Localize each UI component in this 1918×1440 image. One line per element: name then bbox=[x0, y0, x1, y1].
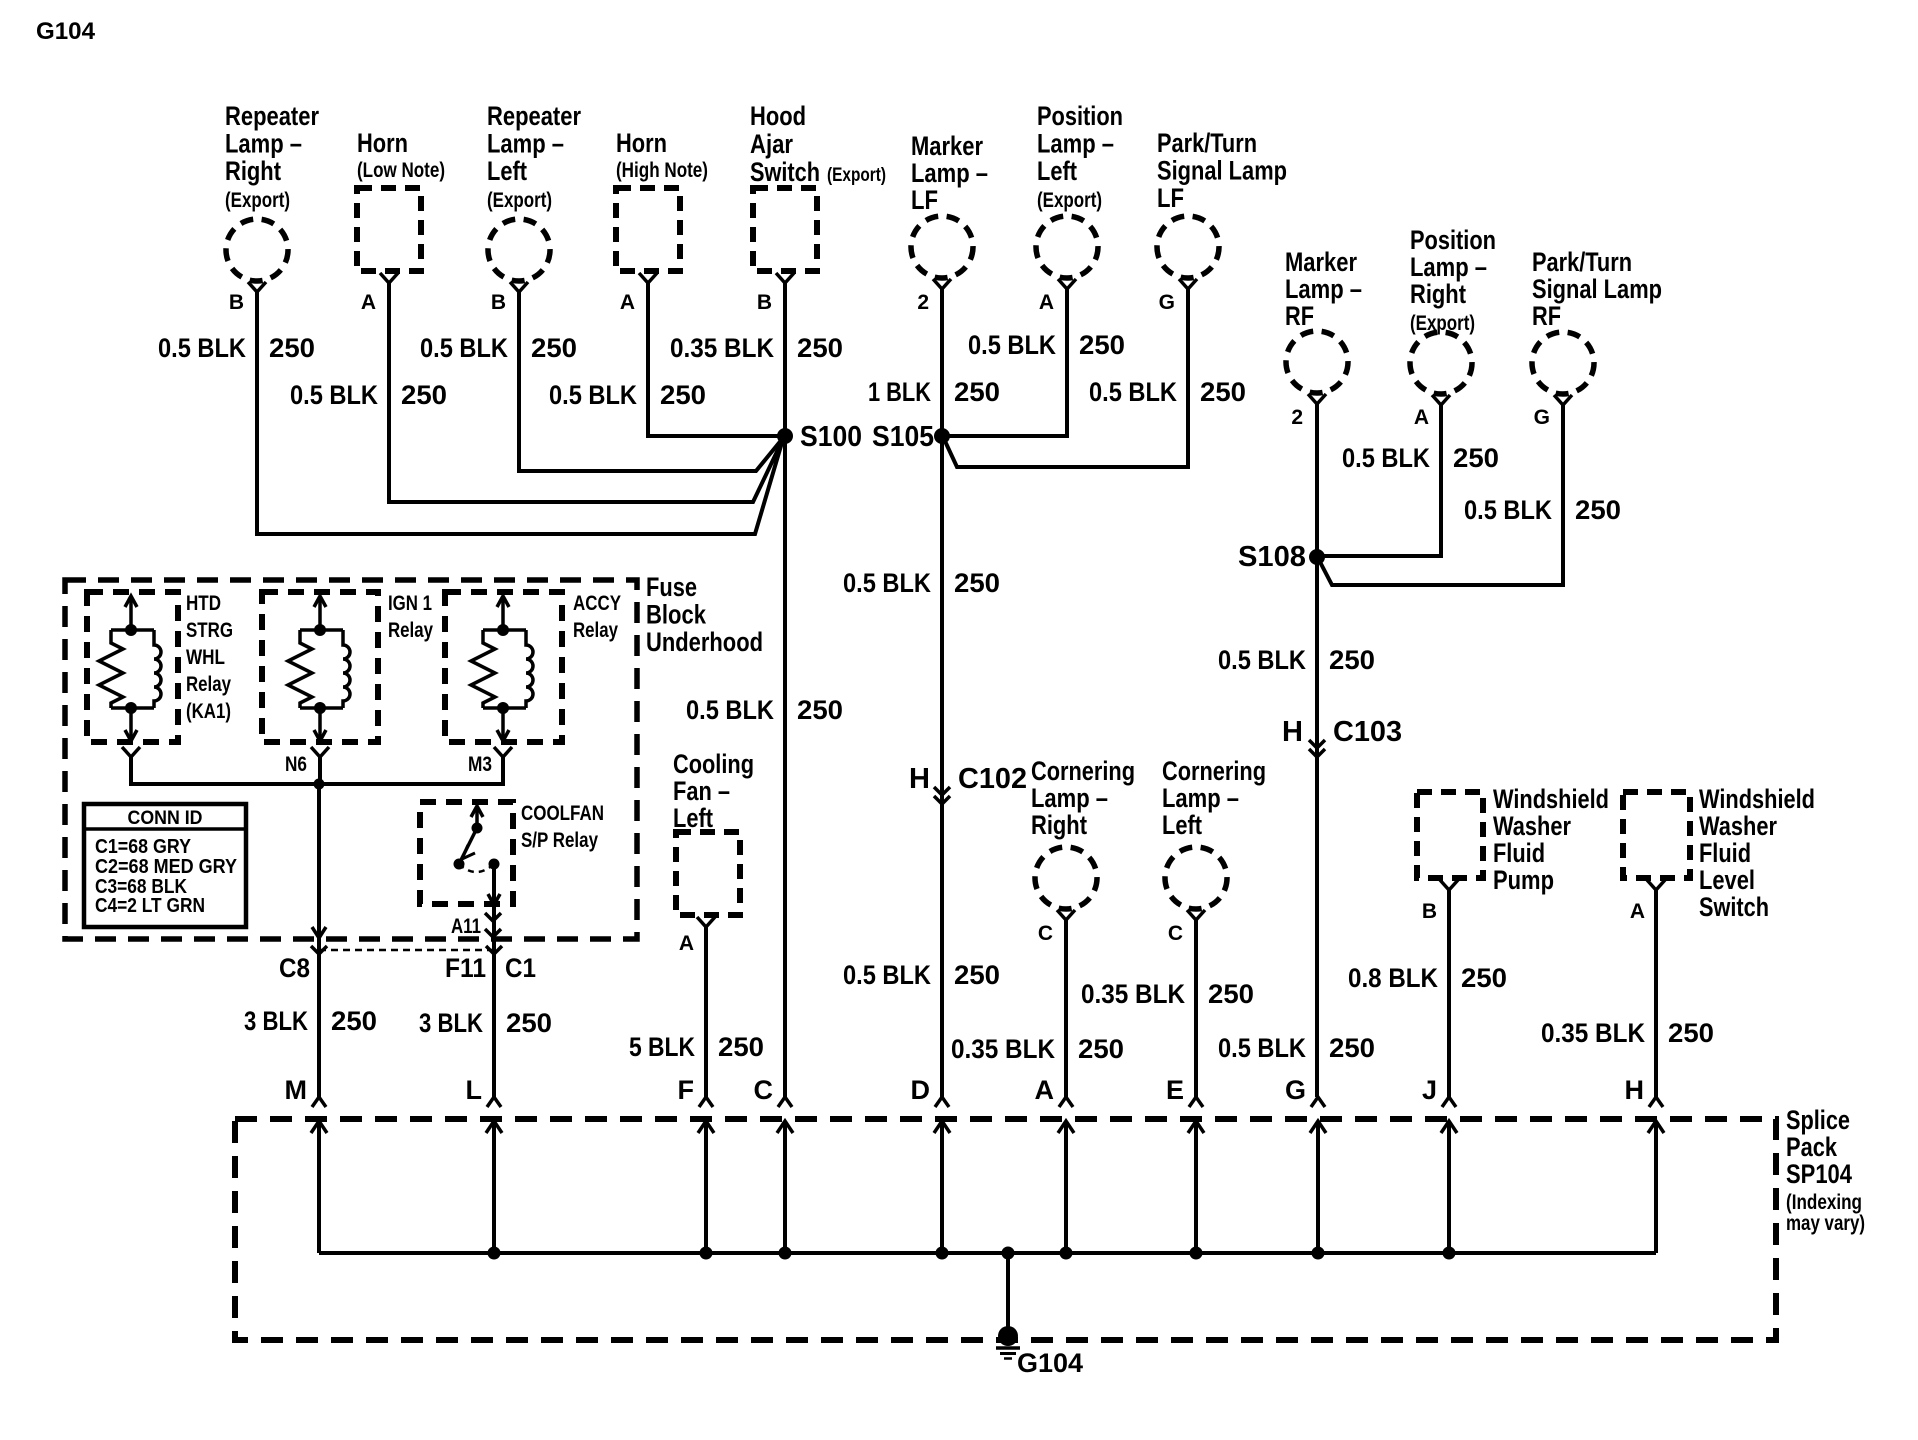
label Splice Pack SP104 bbox=[1786, 1105, 1865, 1235]
svg-text:(Export): (Export) bbox=[487, 189, 552, 212]
svg-text:250: 250 bbox=[506, 1008, 552, 1038]
lamp: Cornering Lamp - Right bbox=[1031, 756, 1135, 909]
splice pack pin J bbox=[1422, 1075, 1457, 1253]
pin C of Cornering Lamp Right bbox=[1038, 910, 1075, 945]
svg-text:250: 250 bbox=[1461, 963, 1507, 993]
svg-text:S/P Relay: S/P Relay bbox=[521, 829, 598, 852]
svg-text:Switch: Switch bbox=[1699, 892, 1769, 922]
svg-text:250: 250 bbox=[718, 1032, 764, 1062]
svg-text:0.5 BLK: 0.5 BLK bbox=[843, 960, 931, 990]
svg-text:Position: Position bbox=[1410, 225, 1496, 255]
svg-text:B: B bbox=[229, 291, 244, 314]
splice pack pin M bbox=[285, 1075, 328, 1253]
lamp: Marker Lamp - RF bbox=[1285, 247, 1362, 393]
svg-text:Signal Lamp: Signal Lamp bbox=[1532, 274, 1662, 304]
svg-text:250: 250 bbox=[1329, 1033, 1375, 1063]
CONN ID table bbox=[84, 804, 246, 927]
pin 2 of Marker Lamp - LF bbox=[917, 279, 951, 314]
svg-text:0.5 BLK: 0.5 BLK bbox=[1089, 377, 1177, 407]
svg-text:Lamp –: Lamp – bbox=[1162, 783, 1239, 813]
svg-text:B: B bbox=[757, 291, 772, 314]
lamp: Repeater Lamp - Left (Export) bbox=[487, 101, 581, 281]
svg-text:250: 250 bbox=[954, 960, 1000, 990]
wire label 0.35 BLK 250 (level switch) bbox=[1541, 1018, 1714, 1048]
svg-text:(KA1): (KA1) bbox=[186, 700, 231, 723]
splice S100 bbox=[777, 421, 862, 453]
svg-text:F: F bbox=[678, 1075, 695, 1105]
wire label 0.5 BLK 250 (S100 to C) bbox=[686, 695, 843, 725]
svg-text:G: G bbox=[1285, 1075, 1306, 1105]
bus junction at ground tap bbox=[1002, 1247, 1015, 1260]
svg-text:Fan –: Fan – bbox=[673, 776, 730, 806]
wire label 0.5 BLK 250 (repeater right) bbox=[158, 333, 315, 363]
pin A of Horn (High Note) bbox=[620, 273, 657, 314]
wire: Cooling Fan A to splice pack pin F bbox=[704, 927, 708, 1097]
svg-text:G104: G104 bbox=[1017, 1348, 1083, 1378]
svg-text:0.35 BLK: 0.35 BLK bbox=[951, 1034, 1055, 1064]
label Fuse Block Underhood bbox=[646, 572, 763, 657]
splice pack pin A bbox=[1035, 1075, 1075, 1253]
svg-text:Underhood: Underhood bbox=[646, 627, 763, 657]
svg-text:Lamp –: Lamp – bbox=[1031, 783, 1108, 813]
wire label 0.5 BLK 250 (C102 to D) bbox=[843, 960, 1000, 990]
splice pack pin C bbox=[754, 1075, 794, 1253]
svg-text:250: 250 bbox=[531, 333, 577, 363]
svg-text:0.5 BLK: 0.5 BLK bbox=[968, 330, 1056, 360]
wire: bus to ground G104 bbox=[1006, 1253, 1010, 1336]
wire label 3 BLK 250 (C8 to M) bbox=[244, 1006, 377, 1036]
bus junction at pin F bbox=[700, 1247, 713, 1260]
wire: Cornering Lamp Left C to splice pack pin E bbox=[1194, 920, 1198, 1097]
splice pack pin L bbox=[466, 1075, 503, 1253]
svg-text:3 BLK: 3 BLK bbox=[244, 1006, 308, 1036]
svg-text:HTD: HTD bbox=[186, 592, 221, 615]
junction of relay grounds bbox=[314, 779, 325, 790]
lamp: Repeater Lamp - Right (Export) bbox=[225, 101, 319, 281]
horn (Low Note) bbox=[357, 128, 445, 271]
svg-text:Ajar: Ajar bbox=[750, 129, 793, 159]
svg-text:(Export): (Export) bbox=[225, 189, 290, 212]
wire label 0.35 BLK 250 (hood ajar) bbox=[670, 333, 843, 363]
wire label 0.5 BLK 250 (S108 to C103) bbox=[1218, 645, 1375, 675]
svg-text:A: A bbox=[1039, 291, 1054, 314]
svg-text:250: 250 bbox=[797, 333, 843, 363]
svg-text:Block: Block bbox=[646, 600, 707, 630]
svg-text:F11: F11 bbox=[445, 953, 486, 983]
svg-text:250: 250 bbox=[797, 695, 843, 725]
svg-text:A11: A11 bbox=[451, 915, 481, 938]
splice pack internal bus bbox=[319, 1251, 1656, 1255]
svg-text:STRG: STRG bbox=[186, 619, 233, 642]
svg-text:0.5 BLK: 0.5 BLK bbox=[1464, 495, 1552, 525]
svg-text:Lamp –: Lamp – bbox=[911, 158, 988, 188]
svg-text:M3: M3 bbox=[468, 753, 492, 776]
connector line between C8 and F11 bbox=[319, 949, 494, 952]
svg-text:Hood: Hood bbox=[750, 101, 806, 131]
pin F11 / connector C1 of fuse block bbox=[445, 946, 536, 983]
svg-text:S100: S100 bbox=[800, 421, 862, 453]
svg-text:250: 250 bbox=[1200, 377, 1246, 407]
svg-text:S105: S105 bbox=[872, 421, 934, 453]
pin A of Fluid Level Switch bbox=[1630, 880, 1665, 923]
bus junction at pin A bbox=[1060, 1247, 1073, 1260]
wire: Washer Pump B to splice pack pin J bbox=[1447, 890, 1451, 1097]
pin G of Park/Turn Signal Lamp RF bbox=[1534, 395, 1572, 429]
svg-text:(Low Note): (Low Note) bbox=[357, 159, 445, 182]
svg-text:0.35 BLK: 0.35 BLK bbox=[1541, 1018, 1645, 1048]
relay: ACCY Relay bbox=[445, 592, 621, 742]
pin B of Repeater Lamp - Right bbox=[229, 282, 266, 314]
wire: Repeater Lamp Right B to S100 bbox=[257, 292, 783, 534]
svg-text:Lamp –: Lamp – bbox=[1410, 252, 1487, 282]
wire: Horn Low Note A to S100 bbox=[389, 283, 783, 502]
lamp: Position Lamp - Right (Export) bbox=[1410, 225, 1496, 394]
svg-text:A: A bbox=[1035, 1075, 1055, 1105]
svg-text:250: 250 bbox=[331, 1006, 377, 1036]
svg-text:Lamp –: Lamp – bbox=[1285, 274, 1362, 304]
svg-text:250: 250 bbox=[1668, 1018, 1714, 1048]
svg-text:G: G bbox=[1159, 291, 1175, 314]
splice pack pin E bbox=[1166, 1075, 1204, 1253]
wire: Level Switch A to splice pack pin H bbox=[1654, 890, 1658, 1097]
svg-text:Fluid: Fluid bbox=[1699, 838, 1751, 868]
lamp: Park/Turn Signal Lamp LF bbox=[1157, 128, 1287, 278]
svg-text:A: A bbox=[1630, 900, 1645, 923]
svg-text:IGN 1: IGN 1 bbox=[388, 592, 432, 615]
splice pack pin G bbox=[1285, 1075, 1326, 1253]
svg-text:H: H bbox=[909, 763, 930, 795]
svg-text:Relay: Relay bbox=[573, 619, 618, 642]
svg-text:Pack: Pack bbox=[1786, 1132, 1838, 1162]
svg-text:0.5 BLK: 0.5 BLK bbox=[1342, 443, 1430, 473]
svg-text:Pump: Pump bbox=[1493, 865, 1554, 895]
pin A11 of COOLFAN relay bbox=[451, 913, 501, 938]
relay: HTD STRG WHL Relay (KA1) bbox=[87, 592, 233, 742]
splice pack pin D bbox=[911, 1075, 951, 1253]
relay: COOLFAN S/P Relay bbox=[420, 802, 604, 1097]
svg-text:A: A bbox=[679, 932, 694, 955]
pin C8 of fuse block bbox=[279, 946, 327, 983]
wire label 0.5 BLK 250 (park/turn LF) bbox=[1089, 377, 1246, 407]
wire label 0.5 BLK 250 (park/turn RF) bbox=[1464, 495, 1621, 525]
svg-text:C2=68 MED GRY: C2=68 MED GRY bbox=[95, 856, 238, 878]
svg-text:C1: C1 bbox=[505, 953, 536, 983]
svg-text:(Indexing: (Indexing bbox=[1786, 1191, 1862, 1214]
fork under HTD relay bbox=[122, 747, 140, 757]
lamp: Position Lamp - Left (Export) bbox=[1036, 101, 1123, 278]
svg-text:RF: RF bbox=[1285, 301, 1314, 331]
pin B of Washer Fluid Pump bbox=[1422, 880, 1458, 923]
wire: Position Lamp Left A to S105 bbox=[942, 289, 1067, 436]
wire label 0.35 BLK 250 (cornering left) bbox=[1081, 979, 1254, 1009]
arrow where relay ground exits fuse block bbox=[312, 927, 326, 938]
pin A of Position Lamp - Right bbox=[1414, 395, 1450, 429]
svg-text:250: 250 bbox=[401, 380, 447, 410]
svg-text:0.5 BLK: 0.5 BLK bbox=[686, 695, 774, 725]
svg-text:A: A bbox=[620, 291, 635, 314]
svg-text:J: J bbox=[1422, 1075, 1437, 1105]
wire label 0.5 BLK 250 (horn low) bbox=[290, 380, 447, 410]
switch: Windshield Washer Fluid Level Switch bbox=[1623, 784, 1815, 922]
svg-text:Relay: Relay bbox=[388, 619, 433, 642]
svg-text:Right: Right bbox=[225, 156, 281, 186]
svg-text:(Export): (Export) bbox=[1037, 189, 1102, 212]
svg-text:0.35 BLK: 0.35 BLK bbox=[1081, 979, 1185, 1009]
svg-text:S108: S108 bbox=[1238, 541, 1306, 573]
bus junction at pin G bbox=[1312, 1247, 1325, 1260]
svg-text:250: 250 bbox=[269, 333, 315, 363]
svg-text:H: H bbox=[1625, 1075, 1645, 1105]
horn (High Note) bbox=[616, 128, 708, 271]
svg-text:M: M bbox=[285, 1075, 308, 1105]
svg-text:0.5 BLK: 0.5 BLK bbox=[290, 380, 378, 410]
svg-text:G104: G104 bbox=[36, 18, 96, 45]
svg-text:C4=2 LT GRN: C4=2 LT GRN bbox=[95, 895, 205, 917]
svg-text:Left: Left bbox=[673, 803, 713, 833]
wire label 0.5 BLK 250 (repeater left) bbox=[420, 333, 577, 363]
svg-text:Switch: Switch bbox=[750, 157, 820, 187]
svg-text:A: A bbox=[1414, 406, 1429, 429]
svg-text:N6: N6 bbox=[285, 753, 307, 776]
svg-text:250: 250 bbox=[1078, 1034, 1124, 1064]
svg-text:E: E bbox=[1166, 1075, 1184, 1105]
wire label 3 BLK 250 (F11 to L) bbox=[419, 1008, 552, 1038]
wire: Park/Turn LF G to S105 bbox=[944, 289, 1188, 467]
svg-text:Left: Left bbox=[1037, 156, 1077, 186]
svg-text:B: B bbox=[491, 291, 506, 314]
svg-text:Windshield: Windshield bbox=[1699, 784, 1815, 814]
svg-text:5 BLK: 5 BLK bbox=[629, 1032, 695, 1062]
wire label 5 BLK 250 (cooling fan) bbox=[629, 1032, 764, 1062]
svg-text:Level: Level bbox=[1699, 865, 1755, 895]
svg-text:Repeater: Repeater bbox=[487, 101, 581, 131]
svg-text:0.35 BLK: 0.35 BLK bbox=[670, 333, 774, 363]
wire: Park/Turn RF G to S108 bbox=[1319, 405, 1563, 585]
wire label 0.5 BLK 250 (S105 to C102) bbox=[843, 568, 1000, 598]
wire label 0.5 BLK 250 (horn high) bbox=[549, 380, 706, 410]
splice S108 bbox=[1238, 541, 1325, 573]
pin G of Park/Turn Signal Lamp LF bbox=[1159, 279, 1197, 314]
wire label 1 BLK 250 (marker LF) bbox=[868, 377, 1000, 407]
pin N6 of IGN 1 relay bbox=[285, 747, 329, 776]
lamp: Marker Lamp - LF bbox=[911, 131, 988, 278]
svg-text:2: 2 bbox=[1291, 406, 1303, 429]
splice S105 bbox=[872, 421, 950, 453]
svg-text:Left: Left bbox=[1162, 810, 1202, 840]
svg-text:WHL: WHL bbox=[186, 646, 225, 669]
wire: IGN1 relay down through fuse block to C8 bbox=[319, 757, 320, 1097]
bus junction at pin C bbox=[779, 1247, 792, 1260]
svg-text:Marker: Marker bbox=[1285, 247, 1357, 277]
svg-text:Park/Turn: Park/Turn bbox=[1532, 247, 1632, 277]
svg-text:(Export): (Export) bbox=[827, 165, 886, 186]
lamp: Cornering Lamp - Left bbox=[1162, 756, 1266, 909]
svg-text:Right: Right bbox=[1031, 810, 1087, 840]
splice pack SP104 box bbox=[235, 1119, 1776, 1340]
lamp: Park/Turn Signal Lamp RF bbox=[1532, 247, 1662, 394]
fuse block underhood box bbox=[65, 580, 637, 939]
svg-text:Horn: Horn bbox=[357, 128, 408, 158]
svg-text:Cooling: Cooling bbox=[673, 749, 754, 779]
svg-text:0.5 BLK: 0.5 BLK bbox=[1218, 645, 1306, 675]
svg-text:ACCY: ACCY bbox=[573, 592, 621, 615]
svg-text:may vary): may vary) bbox=[1786, 1212, 1865, 1235]
pin M3 of ACCY relay bbox=[468, 747, 512, 776]
svg-text:C103: C103 bbox=[1333, 716, 1402, 748]
svg-text:Left: Left bbox=[487, 156, 527, 186]
bus junction at pin L bbox=[488, 1247, 501, 1260]
svg-text:C: C bbox=[1038, 922, 1053, 945]
motor: Cooling Fan - Left bbox=[673, 749, 754, 915]
svg-text:LF: LF bbox=[1157, 183, 1184, 213]
svg-text:Washer: Washer bbox=[1493, 811, 1571, 841]
svg-text:Signal Lamp: Signal Lamp bbox=[1157, 155, 1287, 185]
svg-text:SP104: SP104 bbox=[1786, 1159, 1852, 1189]
wire: Repeater Lamp Left B to S100 bbox=[519, 292, 783, 471]
wire: HTD relay to ground bus junction bbox=[131, 757, 319, 784]
svg-text:0.8 BLK: 0.8 BLK bbox=[1348, 963, 1438, 993]
svg-text:D: D bbox=[911, 1075, 931, 1105]
splice pack pin F bbox=[678, 1075, 715, 1253]
svg-text:Lamp –: Lamp – bbox=[487, 128, 564, 158]
svg-text:C1=68 GRY: C1=68 GRY bbox=[95, 836, 192, 858]
wire: Position Lamp Right A to S108 bbox=[1317, 405, 1441, 556]
svg-text:G: G bbox=[1534, 406, 1550, 429]
svg-text:Windshield: Windshield bbox=[1493, 784, 1609, 814]
svg-text:2: 2 bbox=[917, 291, 929, 314]
svg-text:Position: Position bbox=[1037, 101, 1123, 131]
svg-text:(High Note): (High Note) bbox=[616, 159, 708, 182]
svg-text:C: C bbox=[1168, 922, 1183, 945]
svg-text:0.5 BLK: 0.5 BLK bbox=[1218, 1033, 1306, 1063]
svg-text:B: B bbox=[1422, 900, 1437, 923]
svg-text:1 BLK: 1 BLK bbox=[868, 377, 931, 407]
splice pack pin H bbox=[1625, 1075, 1665, 1253]
svg-text:Cornering: Cornering bbox=[1031, 756, 1135, 786]
pin A of Horn (Low Note) bbox=[361, 273, 398, 314]
svg-text:250: 250 bbox=[660, 380, 706, 410]
svg-text:LF: LF bbox=[911, 185, 938, 215]
svg-text:0.5 BLK: 0.5 BLK bbox=[549, 380, 637, 410]
svg-text:250: 250 bbox=[1208, 979, 1254, 1009]
svg-text:Lamp –: Lamp – bbox=[1037, 128, 1114, 158]
svg-text:Park/Turn: Park/Turn bbox=[1157, 128, 1257, 158]
wire label 0.5 BLK 250 (position right) bbox=[1342, 443, 1499, 473]
pin A of Position Lamp - Left bbox=[1039, 279, 1076, 314]
svg-text:3 BLK: 3 BLK bbox=[419, 1008, 483, 1038]
bus junction at pin D bbox=[936, 1247, 949, 1260]
bus junction at pin J bbox=[1443, 1247, 1456, 1260]
wire: Marker Lamp RF 2 through S108 down to splice pack pin G bbox=[1315, 404, 1319, 1097]
svg-text:(Export): (Export) bbox=[1410, 312, 1475, 335]
pin B of Hood Ajar Switch bbox=[757, 273, 794, 314]
svg-text:COOLFAN: COOLFAN bbox=[521, 802, 604, 825]
svg-text:0.5 BLK: 0.5 BLK bbox=[420, 333, 508, 363]
pump: Windshield Washer Fluid Pump bbox=[1417, 784, 1609, 895]
svg-text:Washer: Washer bbox=[1699, 811, 1777, 841]
svg-text:Relay: Relay bbox=[186, 673, 231, 696]
svg-text:Lamp –: Lamp – bbox=[225, 128, 302, 158]
svg-text:C: C bbox=[754, 1075, 774, 1105]
svg-text:Right: Right bbox=[1410, 279, 1466, 309]
svg-text:Repeater: Repeater bbox=[225, 101, 319, 131]
wire: Hood Ajar Switch B through S100 down to splice pack pin C bbox=[783, 283, 787, 1097]
svg-text:250: 250 bbox=[954, 377, 1000, 407]
svg-text:250: 250 bbox=[1453, 443, 1499, 473]
svg-text:Horn: Horn bbox=[616, 128, 667, 158]
wire label 0.5 BLK 250 (C103 to G) bbox=[1218, 1033, 1375, 1063]
ground G104 bbox=[996, 1326, 1083, 1378]
wire: Cornering Lamp Right C to splice pack pin A bbox=[1064, 920, 1068, 1097]
connector C102 inline marks on marker LF wire bbox=[909, 763, 1027, 804]
svg-text:Fluid: Fluid bbox=[1493, 838, 1545, 868]
svg-text:CONN ID: CONN ID bbox=[128, 808, 203, 829]
pin B of Repeater Lamp - Left bbox=[491, 282, 528, 314]
svg-text:250: 250 bbox=[1079, 330, 1125, 360]
switch: Hood Ajar Switch (Export) bbox=[750, 101, 886, 271]
svg-text:Fuse: Fuse bbox=[646, 572, 697, 602]
relay: IGN 1 Relay bbox=[262, 592, 433, 742]
svg-text:250: 250 bbox=[954, 568, 1000, 598]
svg-text:0.5 BLK: 0.5 BLK bbox=[843, 568, 931, 598]
wire label 0.8 BLK 250 (washer pump) bbox=[1348, 963, 1507, 993]
svg-text:250: 250 bbox=[1329, 645, 1375, 675]
pin C of Cornering Lamp Left bbox=[1168, 910, 1205, 945]
svg-text:L: L bbox=[466, 1075, 483, 1105]
svg-text:250: 250 bbox=[1575, 495, 1621, 525]
wire: Marker Lamp LF 2 through S105 down to splice pack pin D bbox=[940, 289, 944, 1097]
svg-text:C8: C8 bbox=[279, 953, 310, 983]
svg-text:Cornering: Cornering bbox=[1162, 756, 1266, 786]
wire: Horn High Note A to S100 bbox=[648, 283, 785, 436]
pin A of Cooling Fan bbox=[679, 917, 715, 955]
svg-text:A: A bbox=[361, 291, 376, 314]
pin 2 of Marker Lamp - RF bbox=[1291, 394, 1326, 429]
svg-text:C102: C102 bbox=[958, 763, 1027, 795]
wire label 0.5 BLK 250 (position left) bbox=[968, 330, 1125, 360]
svg-text:H: H bbox=[1282, 716, 1303, 748]
svg-text:Marker: Marker bbox=[911, 131, 983, 161]
wire label 0.35 BLK 250 (cornering right) bbox=[951, 1034, 1124, 1064]
bus junction at pin E bbox=[1190, 1247, 1203, 1260]
connector C103 inline marks on marker RF wire bbox=[1282, 716, 1402, 757]
svg-text:Splice: Splice bbox=[1786, 1105, 1850, 1135]
svg-text:0.5 BLK: 0.5 BLK bbox=[158, 333, 246, 363]
svg-text:RF: RF bbox=[1532, 301, 1561, 331]
wire: ACCY relay to ground bus junction bbox=[319, 757, 503, 784]
